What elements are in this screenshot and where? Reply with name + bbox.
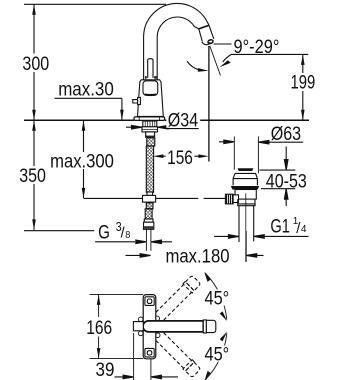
svg-text:45°: 45° [205,289,230,310]
tee lower nub [146,203,153,209]
top screw [145,297,154,306]
svg-text:max.30: max.30 [58,79,114,100]
side inlet knurled knob [225,194,233,204]
svg-text:G1: G1 [270,216,290,237]
svg-text:max.300: max.300 [50,152,114,173]
drain center line [245,193,247,262]
drain rubber washer [231,186,259,190]
G1 1/4 arrows and underline [214,235,239,239]
side inlet stem [233,195,238,203]
label max.300 [49,152,116,169]
svg-text:39: 39 [96,360,115,380]
drain flange [233,173,257,185]
label 45 deg lower [203,346,231,362]
wire supply reference line [84,197,226,199]
9-29 leader from outlet [214,43,232,45]
label dia 34 [166,111,200,128]
bottom screw [145,348,154,357]
39 extension lines [134,333,151,380]
spout end ring [203,320,206,333]
label 166 [85,319,114,335]
label 350 [18,166,48,183]
aerator outlet pellet [207,39,213,44]
svg-text:350: 350 [19,166,46,187]
40-53 arrows [284,147,288,171]
label 300 [21,55,53,72]
base flange [134,117,165,121]
svg-text:4: 4 [301,224,307,235]
svg-text:166: 166 [86,318,112,339]
spout outlet plumb line [208,46,210,162]
svg-text:40-53: 40-53 [266,171,307,192]
166 extension lines [90,294,144,358]
spout end cap [206,320,215,332]
svg-text:G: G [98,223,110,244]
faucet spout gooseneck inner contour [157,17,199,80]
max.180 right extension line [245,231,247,262]
faucet body [138,80,164,117]
lower dashed spout 45 deg [151,328,201,378]
faucet spout gooseneck outer contour [144,3,209,80]
swivel hub scalloped [139,316,160,337]
shank lower block [146,132,155,137]
svg-text:300: 300 [22,54,49,75]
G3/8 right arrow [151,240,172,244]
dimension 300 line [33,4,35,120]
aerator outlet lip [202,42,210,45]
350 bottom reference line [24,230,94,232]
199 dimension line [302,54,304,120]
hose end collar [144,219,153,222]
dimension max.300 line [83,120,85,198]
svg-text:45°: 45° [205,345,230,366]
svg-text:max.180: max.180 [166,246,230,267]
svg-text:156: 156 [167,148,193,169]
spout tilt slant line [210,46,221,76]
svg-text:199: 199 [291,73,316,94]
max.30 leader underline and arrow [55,98,122,120]
166 dimension line [98,294,100,358]
pop-up rod knob [133,100,138,103]
tube shoulder nubs [145,76,157,79]
neck washer [237,204,255,206]
40-53 extension lines [260,170,296,189]
drain tailpipe [239,206,254,242]
swivel arc upper [205,273,227,320]
svg-text:Ø34: Ø34 [168,111,199,132]
G3/8 connection nut [144,222,154,229]
Ø34 dimension arrows at base nut [126,125,168,129]
mounting shank threaded [143,121,157,127]
mounting plate top view [143,295,156,359]
mounting lock nut [142,127,158,132]
drain Ø63 extension lines [234,136,258,173]
hose nut dark band [145,136,155,138]
swivel arc lower [205,333,227,380]
9-29 underline extending to 199 dimension [231,53,309,55]
flexible braided hose upper [146,146,153,192]
tee fitting on supply [147,192,153,195]
label 45 deg upper [203,290,231,306]
G3/8 label underline with arrow [95,240,146,244]
leader arrow onto slant line [223,55,231,62]
label 199 [289,74,317,90]
39 dimension [115,375,134,379]
svg-text:Ø63: Ø63 [271,124,301,145]
braided hose lower [145,209,152,219]
svg-text:8: 8 [125,230,131,241]
top extension line (spout top level) [24,3,166,5]
handle lever stick [148,59,153,78]
drain neck [238,199,255,206]
solid spout top view [143,321,203,332]
max.180 dimension [126,254,151,258]
drain plug cap bar [238,168,254,171]
swivel curved arrow [187,61,201,70]
label 156 [166,149,195,165]
156 dimension [153,154,209,158]
G3/8 threaded tails [146,229,151,250]
drain lock nut [235,190,256,200]
body front face inset [143,81,158,95]
spray head body [199,25,214,41]
spray head joint line [199,25,209,29]
Ø63 dimension arrows [219,140,269,144]
svg-text:9°-29°: 9°-29° [234,37,280,58]
supply stub left [133,322,143,331]
upper dashed spout 45 deg [151,275,201,325]
dimension 350 line [33,120,35,230]
deck / counter line [24,119,309,121]
hose crimp collar [147,138,155,146]
